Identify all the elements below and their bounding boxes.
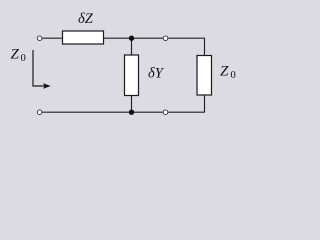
svg-text:0: 0 xyxy=(21,53,26,64)
svg-text:Z: Z xyxy=(220,64,229,80)
svg-text:Z: Z xyxy=(11,47,20,63)
svg-text:δZ: δZ xyxy=(78,11,94,27)
svg-text:0: 0 xyxy=(231,70,236,81)
svg-text:δY: δY xyxy=(148,65,165,81)
